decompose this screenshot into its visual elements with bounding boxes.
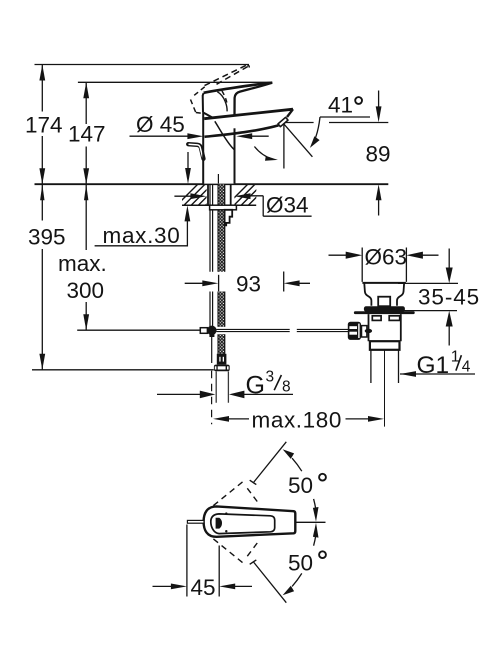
svg-text:max.: max. (58, 251, 107, 276)
O63 left arrow (346, 252, 363, 259)
upper dashed inner edge (247, 488, 258, 502)
svg-text:G: G (246, 371, 265, 399)
147 reference line (78, 81, 272, 83)
dimension 147 bottom arrow (83, 168, 89, 184)
35-45 lower reference line (396, 310, 458, 312)
O45 right-pointing arrow (187, 133, 203, 139)
G3/8 nut (214, 365, 230, 372)
pull-rod down arrow head (185, 168, 191, 184)
svg-text:395: 395 (28, 225, 66, 250)
lower arc segment b (314, 535, 316, 546)
cap crease lower (225, 102, 227, 112)
handle top view: upper rotated dashed left edge (213, 479, 246, 505)
drain adjusting knob (348, 322, 361, 340)
svg-text:174: 174 (25, 112, 63, 137)
35-45 lower arrow (446, 311, 453, 327)
cartridge cap bottom edge (203, 112, 213, 117)
max180 left extension (dashed) (211, 371, 213, 425)
svg-text:G1: G1 (417, 352, 450, 379)
spout tip edge (287, 109, 293, 117)
O34 right arrow (235, 193, 251, 199)
mounting washer (210, 205, 237, 210)
svg-text:3: 3 (266, 369, 275, 386)
max180 dimension left arrow (213, 416, 229, 422)
pivot oval on drain body (365, 329, 372, 333)
lower arc segment a (292, 573, 302, 586)
body right edge (234, 128, 236, 183)
drain body bottom collar (370, 341, 400, 350)
max30 leader underline and riser (95, 221, 188, 246)
handle pin (187, 520, 204, 523)
O34 leader to label (250, 196, 312, 216)
svg-text:8: 8 (282, 378, 291, 395)
svg-text:300: 300 (67, 278, 105, 303)
35-45 upper arrow (448, 249, 450, 269)
pull rod stub below ball (211, 335, 213, 363)
dimension 89 line upper (378, 91, 380, 108)
lever dashed raised lower edge (217, 66, 249, 84)
handle inner outline (211, 514, 275, 534)
knob connector (362, 326, 367, 337)
G3/8 dimension right arrow with underline tail (229, 391, 245, 399)
faucet shank left wall (207, 184, 209, 205)
drain stem square tab (378, 297, 390, 307)
dimension 93 line (185, 282, 310, 284)
pop-up drain flange top (362, 282, 406, 284)
lower dashed inner edge (247, 542, 258, 556)
svg-text:45: 45 (191, 575, 216, 600)
45 left arrow (153, 585, 174, 587)
svg-text:89: 89 (366, 142, 391, 167)
spout height reference line at spout tip (284, 122, 388, 124)
drain flange left profile (364, 284, 371, 306)
dimension 395 top arrow (40, 184, 44, 200)
dimension 147 top arrow (83, 82, 89, 98)
lever handle bottom edge and neck (235, 83, 273, 116)
cartridge cap left edge (202, 93, 205, 112)
O63 right arrow (406, 252, 423, 259)
41deg leader arrowhead (310, 136, 320, 148)
lever dashed left edge (191, 100, 196, 113)
svg-text:max.30: max.30 (103, 223, 181, 248)
cap crease upper (217, 92, 225, 102)
svg-text:50: 50 (288, 473, 313, 498)
drain body sides (369, 314, 401, 341)
handle dot upper (225, 512, 227, 514)
pull rod stub inside body (217, 174, 219, 183)
dimension 89 lower tail (378, 200, 380, 216)
lever dashed tip edge (247, 65, 249, 68)
pull-rod down arrow line (187, 152, 189, 169)
mounting nut stepped profile (225, 210, 233, 226)
lower arc arrowhead at centerline (313, 523, 319, 538)
pivot ball (207, 326, 217, 336)
counter bottom line (182, 204, 256, 206)
pull rod hook core (189, 144, 203, 157)
45 right arrow (219, 584, 235, 590)
drain rubber seal (364, 306, 405, 311)
drain tailpipe (371, 350, 399, 383)
G1 1/4 arrow (400, 371, 416, 377)
svg-text:Ø34: Ø34 (266, 193, 309, 218)
lever handle top edge (204, 83, 273, 93)
93 extension line right (spout tip axis) (283, 272, 285, 292)
upper arc arrowhead at ray (283, 449, 295, 459)
upper dashed tip edge (250, 480, 257, 484)
O63 extension lines (362, 248, 406, 282)
50deg lower ray (254, 562, 286, 602)
drain body bayonet slots (372, 316, 381, 321)
dimension 89 up arrow (376, 184, 382, 200)
41deg label underline (320, 116, 370, 118)
max30 up arrow (185, 205, 191, 221)
spout bottom edge (205, 125, 279, 136)
svg-text:147: 147 (68, 122, 106, 147)
handle outer outline (204, 506, 296, 536)
41deg leader arc to angle line (312, 117, 320, 145)
countertop surface line (35, 183, 389, 185)
dimension O34 left arrow tail (174, 195, 191, 197)
dimension max300 top arrow (84, 184, 88, 200)
O34 left arrow (190, 193, 206, 199)
drain O63 dimension line left (329, 254, 349, 256)
41deg angle line (spout direction) (284, 124, 313, 157)
dimension O45 left line (130, 135, 189, 137)
pull rod hook outer (188, 144, 203, 159)
93 right arrow (284, 280, 300, 286)
svg-text:93: 93 (236, 272, 261, 297)
counter section hatching (176, 184, 270, 206)
dimension max300 line (85, 184, 87, 330)
svg-text:Ø 45: Ø 45 (136, 112, 185, 137)
svg-text:50: 50 (288, 551, 313, 576)
handle centerline (296, 521, 326, 523)
upper arc arrowhead at centerline (313, 507, 319, 522)
G3/8 connection pipe (216, 371, 228, 402)
dimension 174 top arrow (39, 65, 45, 81)
body left edge (202, 112, 204, 183)
hose crimp collar (217, 354, 227, 365)
pull rod below counter (210, 184, 213, 326)
faucet body fill (204, 83, 294, 184)
dimension 89 down arrow (376, 106, 382, 122)
93 extension line left (faucet axis) (218, 275, 220, 292)
G3/8 dimension left arrow (157, 393, 202, 395)
41deg left arc (254, 147, 273, 160)
O45 right tail (251, 135, 269, 137)
35-45 upper reference line (398, 282, 458, 284)
svg-text:41: 41 (328, 93, 353, 118)
faucet shank right wall (230, 184, 232, 205)
41deg left arc arrowhead (265, 156, 278, 161)
dimension 45 extension left (186, 525, 188, 597)
horizontal pop-up rod (216, 329, 348, 331)
50deg upper ray (254, 442, 286, 482)
svg-text:4: 4 (462, 358, 471, 375)
drain centerline (384, 350, 386, 427)
bottom reference line (395 depth) (32, 369, 214, 371)
handle dot lower (225, 530, 227, 532)
max180 dimension right arrow (346, 418, 372, 420)
93 left arrow (202, 280, 218, 286)
dimension 45 extension right (218, 546, 220, 597)
dimension 147 line (85, 82, 87, 184)
lever dashed left face upper (194, 86, 205, 95)
lever dashed bottom bit (196, 113, 205, 114)
drain seal lip (354, 311, 415, 314)
max300 reference line (77, 329, 200, 331)
top reference line (faucet max height) (35, 64, 250, 66)
drain flange right profile (397, 284, 404, 306)
O63 dimension line right (421, 254, 439, 256)
aerator outline (278, 117, 288, 126)
dimension 174 line (41, 65, 43, 185)
body-spout junction curve (215, 121, 234, 149)
O45 right arrow pointing left at body (236, 133, 252, 139)
dimension 395 bottom arrow (39, 354, 45, 370)
lower dashed tip edge (250, 560, 257, 564)
svg-text:35-45: 35-45 (418, 284, 480, 309)
upper arc segment b (314, 499, 316, 510)
svg-text:Ø63: Ø63 (365, 245, 408, 270)
upper arc segment a (292, 458, 302, 471)
dimension 395 line (41, 184, 43, 370)
spout top edge (204, 109, 293, 119)
lever dashed raised position top edge (205, 65, 247, 86)
lower rotated dashed left edge (213, 539, 246, 565)
lower arc arrowhead at ray (283, 586, 295, 596)
vertical line through spout tip (283, 124, 285, 169)
flexible supply hose (braided) upper run (218, 184, 225, 272)
dimension max300 bottom arrow (83, 314, 89, 330)
svg-text:max.180: max.180 (252, 407, 343, 432)
pivot rod clamp (200, 328, 207, 334)
dimension 174 bottom arrow (39, 168, 45, 184)
lever dashed neck crease (222, 91, 227, 106)
handle black indicator mark (216, 518, 222, 529)
flexible supply hose lower run (218, 292, 225, 327)
nut highlights (215, 366, 217, 369)
